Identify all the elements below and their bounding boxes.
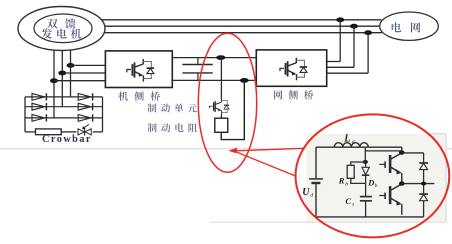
svg-text:b: b: [375, 183, 378, 189]
svg-text:d: d: [352, 139, 355, 145]
svg-text:C: C: [345, 196, 351, 206]
svg-text:D: D: [367, 177, 374, 187]
svg-text:R: R: [338, 176, 345, 186]
svg-text:s: s: [352, 202, 354, 208]
svg-text:U: U: [302, 187, 310, 198]
svg-text:L: L: [343, 134, 350, 145]
svg-text:b: b: [345, 181, 348, 187]
svg-text:d: d: [310, 193, 313, 199]
svg-text:Crowbar: Crowbar: [42, 134, 92, 145]
